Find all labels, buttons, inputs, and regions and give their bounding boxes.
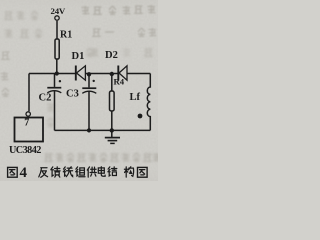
svg-text:D2: D2 (105, 50, 118, 61)
svg-text:Lf: Lf (130, 92, 141, 103)
svg-text:7: 7 (24, 118, 29, 129)
svg-text:R1: R1 (60, 30, 72, 41)
svg-text:C3: C3 (66, 89, 79, 100)
svg-text:4: 4 (20, 165, 28, 181)
svg-text:R4: R4 (114, 77, 125, 87)
svg-text:24V: 24V (51, 6, 66, 16)
svg-text:D1: D1 (72, 51, 85, 62)
svg-text:UC3842: UC3842 (9, 145, 41, 156)
svg-text:C2: C2 (39, 93, 52, 104)
